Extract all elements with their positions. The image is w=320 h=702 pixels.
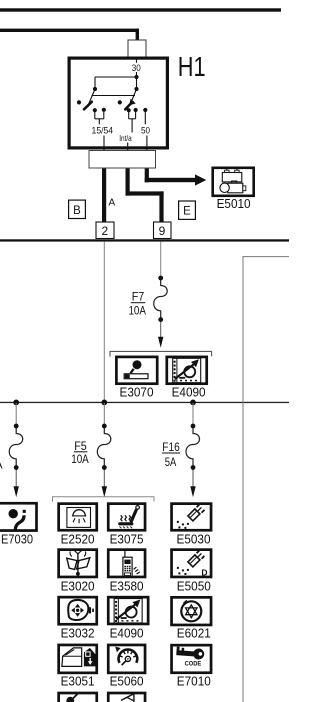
svg-text:9: 9 <box>159 224 166 238</box>
svg-text:F16: F16 <box>162 440 180 454</box>
svg-text:CODE: CODE <box>185 661 202 668</box>
svg-text:E7030: E7030 <box>1 532 33 547</box>
svg-text:50: 50 <box>141 125 150 135</box>
svg-text:Int/a: Int/a <box>119 133 132 143</box>
svg-text:E3032: E3032 <box>61 626 95 641</box>
svg-text:D: D <box>201 568 207 578</box>
svg-text:E2520: E2520 <box>61 532 95 547</box>
svg-text:E5050: E5050 <box>177 579 211 594</box>
svg-text:B: B <box>73 205 81 217</box>
svg-text:E3051: E3051 <box>61 674 95 689</box>
svg-text:5A: 5A <box>165 455 177 469</box>
svg-text:A: A <box>109 198 116 209</box>
svg-text:10A: 10A <box>128 304 146 318</box>
svg-text:H1: H1 <box>178 51 206 82</box>
svg-text:2: 2 <box>101 224 108 238</box>
svg-text:E6021: E6021 <box>177 626 211 641</box>
svg-text:E7010: E7010 <box>177 674 211 689</box>
svg-text:E5010: E5010 <box>217 196 251 211</box>
svg-text:E4090: E4090 <box>172 385 206 400</box>
svg-text:E: E <box>183 206 191 218</box>
svg-text:E5030: E5030 <box>177 532 211 547</box>
svg-text:E3580: E3580 <box>110 579 144 594</box>
svg-text:30: 30 <box>132 63 141 73</box>
svg-text:10A: 10A <box>71 452 89 466</box>
svg-text:E4090: E4090 <box>110 626 144 641</box>
svg-text:15/54: 15/54 <box>92 125 114 136</box>
svg-text:F5: F5 <box>74 439 87 453</box>
svg-text:E3075: E3075 <box>110 532 144 547</box>
svg-text:E3020: E3020 <box>61 579 95 594</box>
svg-text:F7: F7 <box>132 290 145 304</box>
svg-text:E5060: E5060 <box>110 674 144 689</box>
svg-text:E3070: E3070 <box>120 385 154 400</box>
